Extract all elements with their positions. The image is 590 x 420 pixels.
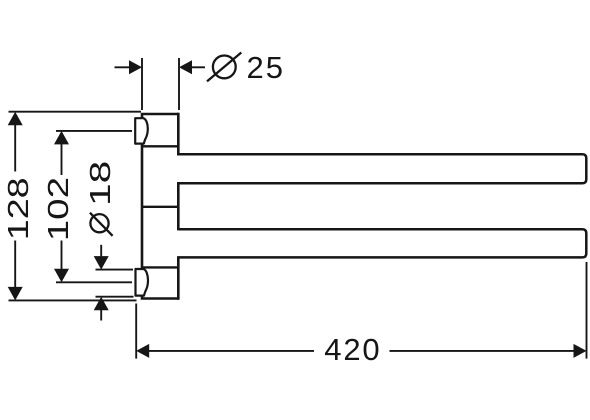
dimension 420: left extension line (135, 304, 137, 359)
bottom cap joint line (142, 266, 178, 268)
svg-text:18: 18 (85, 161, 117, 206)
top arm (bar 1) (178, 154, 586, 183)
svg-text:420: 420 (324, 332, 381, 367)
bottom wall-mount knob (136, 269, 149, 296)
dimension Ø18: lower extension line (96, 296, 134, 298)
dimension 128: bottom extension line (9, 299, 137, 301)
dimension Ø18: up arrow leader (94, 297, 109, 311)
top cap joint line (142, 145, 178, 147)
dimension 102: dimension line with arrows (54, 131, 69, 145)
dimension Ø25: diameter symbol (213, 56, 236, 79)
dimension Ø25: right extension line (178, 58, 180, 110)
top wall-mount knob (135, 118, 148, 143)
dimension Ø18: diameter symbol (rotated) (90, 214, 108, 232)
wall post right edge middle segment (177, 182, 180, 230)
svg-text:102: 102 (42, 177, 74, 241)
dimension Ø25: left extension line (141, 58, 143, 110)
bottom arm (bar 2) (178, 229, 586, 257)
dimension Ø18: upper extension line (96, 269, 134, 271)
dimension Ø18: down arrow leader (100, 245, 102, 258)
wall post right edge lower segment (177, 256, 180, 300)
dimension 102: top extension line (56, 130, 132, 132)
dimension Ø25: left arrow (115, 66, 132, 68)
wall post right edge upper segment (177, 113, 180, 156)
dimension 102: bottom extension line (56, 281, 132, 283)
wall post body (142, 114, 178, 299)
dimension 420: dimension line with arrows (136, 344, 149, 358)
dimension 128: dimension line with arrows (8, 112, 23, 126)
dimension 420: right extension line (586, 262, 588, 359)
middle swivel joint line (142, 206, 178, 208)
svg-text:128: 128 (3, 177, 35, 240)
dimension Ø25: right arrow (190, 66, 205, 68)
dimension 128: top extension line (9, 111, 142, 113)
svg-text:25: 25 (247, 50, 285, 85)
